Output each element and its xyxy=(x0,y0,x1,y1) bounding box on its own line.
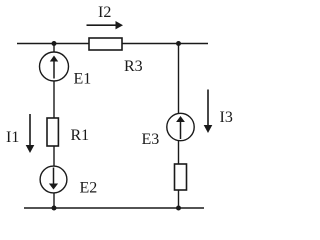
source E2 xyxy=(40,166,67,193)
resistor right branch xyxy=(175,164,187,190)
svg-text:I2: I2 xyxy=(98,4,111,21)
svg-text:R1: R1 xyxy=(71,127,90,144)
wire bottom horizontal xyxy=(24,207,204,209)
resistor R3 xyxy=(89,38,122,50)
wire top horizontal xyxy=(17,43,208,45)
source E1 xyxy=(40,52,69,81)
svg-text:I1: I1 xyxy=(6,129,19,146)
svg-text:E2: E2 xyxy=(80,180,98,197)
node junction bottom-left xyxy=(52,206,57,211)
wire right vertical xyxy=(178,44,180,209)
svg-text:R3: R3 xyxy=(124,58,143,75)
svg-text:E3: E3 xyxy=(142,131,160,148)
current arrow I2 xyxy=(87,21,124,29)
node junction top-right xyxy=(176,41,181,46)
svg-text:I3: I3 xyxy=(220,109,233,126)
current arrow I3 xyxy=(204,90,213,134)
node junction top-left xyxy=(52,41,57,46)
resistor R1 xyxy=(47,118,58,146)
svg-text:E1: E1 xyxy=(74,71,92,88)
current arrow I1 xyxy=(26,114,35,153)
node junction bottom-right xyxy=(176,206,181,211)
wire left vertical xyxy=(53,44,55,209)
source E3 xyxy=(167,113,194,140)
